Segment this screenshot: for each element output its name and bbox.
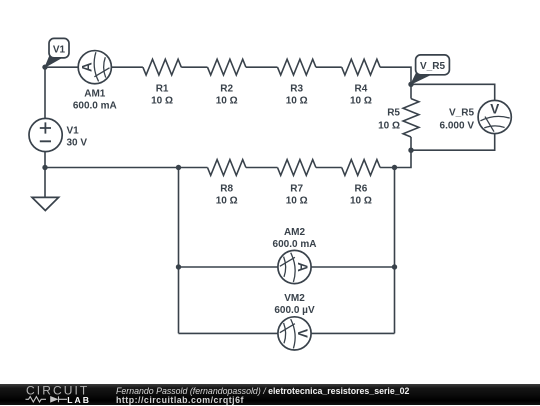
wire	[311, 266, 394, 268]
wire	[246, 167, 278, 169]
svg-text:A: A	[295, 262, 310, 272]
svg-text:600.0 mA: 600.0 mA	[273, 239, 317, 250]
resistor R1	[143, 59, 181, 75]
svg-text:R3: R3	[290, 83, 303, 94]
wire	[45, 66, 78, 68]
svg-text:V1: V1	[67, 125, 80, 136]
svg-text:R4: R4	[355, 83, 368, 94]
wire	[44, 168, 46, 198]
svg-text:10 Ω: 10 Ω	[151, 95, 173, 106]
wire	[394, 168, 396, 334]
svg-text:R2: R2	[220, 83, 233, 94]
svg-text:V1: V1	[53, 44, 66, 55]
svg-text:AM1: AM1	[84, 89, 106, 100]
wire	[316, 167, 342, 169]
wire	[411, 84, 495, 100]
voltage source V1	[29, 118, 62, 151]
wire	[45, 167, 208, 169]
wire	[179, 266, 278, 268]
voltmeter V_R5	[478, 100, 511, 133]
resistor R5	[403, 99, 419, 137]
svg-text:10 Ω: 10 Ω	[286, 95, 308, 106]
svg-text:AM2: AM2	[284, 227, 306, 238]
svg-text:10 Ω: 10 Ω	[378, 121, 400, 132]
svg-text:10 Ω: 10 Ω	[216, 95, 238, 106]
wire	[410, 137, 412, 150]
wire	[181, 66, 207, 68]
wire	[44, 152, 46, 168]
svg-text:10 Ω: 10 Ω	[216, 195, 238, 206]
footer bar	[0, 384, 540, 405]
ammeter AM2	[278, 250, 311, 283]
svg-text:V: V	[490, 102, 499, 117]
svg-text:LAB: LAB	[67, 395, 91, 405]
junction dot	[408, 82, 413, 87]
wire	[316, 66, 342, 68]
junction dot	[42, 64, 47, 69]
ground	[32, 197, 59, 210]
wire	[380, 67, 411, 84]
resistor R7	[278, 160, 316, 176]
resistor R4	[342, 59, 380, 75]
junction dot	[42, 165, 47, 170]
svg-text:30 V: 30 V	[67, 137, 88, 148]
resistor R3	[278, 59, 316, 75]
junction dot	[176, 165, 181, 170]
wire	[311, 332, 394, 334]
voltmeter VM2	[278, 317, 311, 350]
wire	[179, 332, 278, 334]
svg-text:10 Ω: 10 Ω	[286, 195, 308, 206]
svg-text:6.000 V: 6.000 V	[440, 121, 475, 132]
junction dot	[392, 264, 397, 269]
wire	[410, 84, 412, 98]
svg-text:R8: R8	[220, 183, 233, 194]
ammeter AM1	[78, 51, 111, 84]
svg-text:V_R5: V_R5	[449, 108, 474, 119]
svg-text:V: V	[295, 329, 310, 338]
svg-text:10 Ω: 10 Ω	[350, 195, 372, 206]
svg-text:600.0 mA: 600.0 mA	[73, 101, 117, 112]
CircuitLab logo	[24, 384, 124, 405]
node V1 flag	[45, 38, 69, 67]
wire	[380, 150, 411, 167]
svg-text:R1: R1	[156, 83, 169, 94]
wire	[111, 66, 142, 68]
junction dot	[392, 165, 397, 170]
footer credit text	[116, 387, 409, 406]
svg-text:VM2: VM2	[284, 293, 305, 304]
junction dot	[408, 148, 413, 153]
svg-text:R7: R7	[290, 183, 303, 194]
node V_R5 flag	[411, 55, 449, 84]
resistor R8	[208, 160, 246, 176]
svg-text:V_R5: V_R5	[420, 61, 445, 72]
resistor R6	[342, 160, 380, 176]
svg-text:R6: R6	[355, 183, 368, 194]
wire	[411, 134, 495, 151]
junction dot	[176, 264, 181, 269]
wire	[178, 168, 180, 334]
svg-text:600.0 µV: 600.0 µV	[274, 305, 315, 316]
resistor R2	[208, 59, 246, 75]
svg-text:R5: R5	[387, 108, 400, 119]
svg-text:10 Ω: 10 Ω	[350, 95, 372, 106]
wire	[44, 67, 46, 118]
wire	[246, 66, 278, 68]
svg-text:A: A	[79, 62, 94, 72]
